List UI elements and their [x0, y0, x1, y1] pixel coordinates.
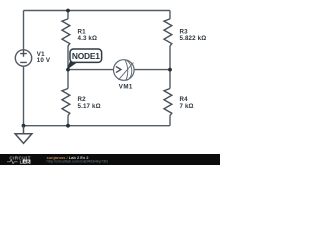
- svg-text:VM1: VM1: [119, 84, 133, 91]
- svg-text:http://circuitlab.com/c/abf4bb: http://circuitlab.com/c/abf4bb4kp73fs: [47, 160, 109, 164]
- svg-text:L: L: [20, 159, 23, 164]
- svg-text:5.17 kΩ: 5.17 kΩ: [78, 103, 101, 110]
- resistor R4: [164, 89, 172, 116]
- junction dot top (R1 top): [66, 9, 70, 13]
- node NODE1 label: [67, 49, 102, 70]
- wire top horizontal: [24, 10, 171, 12]
- wire right column: [169, 11, 171, 126]
- svg-text:10 V: 10 V: [37, 57, 51, 64]
- wire voltmeter row left: [68, 69, 114, 71]
- svg-text:4.3 kΩ: 4.3 kΩ: [78, 35, 98, 42]
- junction dot right (VM1 right): [168, 68, 172, 72]
- footer bar: [0, 154, 220, 165]
- voltage source V1: [15, 50, 31, 66]
- junction dot bottom left: [22, 124, 26, 128]
- footer logo CIRCUIT LAB: [7, 155, 31, 164]
- resistor R3: [164, 19, 172, 46]
- voltmeter VM1: [114, 60, 135, 81]
- svg-text:NODE1: NODE1: [72, 51, 100, 61]
- ground: [15, 126, 32, 144]
- junction dot bottom (R2 bottom): [66, 124, 70, 128]
- svg-text:7 kΩ: 7 kΩ: [180, 103, 194, 110]
- junction dot NODE1: [66, 68, 70, 72]
- svg-text:5.822 kΩ: 5.822 kΩ: [180, 35, 207, 42]
- wire bottom horizontal: [24, 125, 171, 127]
- resistor R1: [62, 19, 70, 46]
- wire R1 column: [67, 11, 69, 126]
- wire voltmeter row right: [134, 69, 170, 71]
- svg-text:AB: AB: [23, 159, 29, 164]
- resistor R2: [62, 89, 70, 116]
- wire left column lower: [23, 66, 25, 126]
- wire left column upper: [23, 11, 25, 50]
